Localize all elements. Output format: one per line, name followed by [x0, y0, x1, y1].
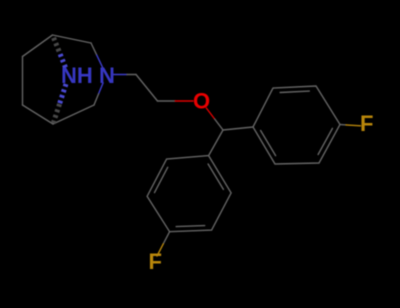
benzene ring1 outline — [253, 86, 340, 164]
wire C6-C7 — [22, 57, 24, 106]
ring1 double bond top — [280, 91, 309, 92]
wire O-C11 — [206, 108, 214, 119]
wire C1-C2 — [53, 35, 92, 43]
wire ring2-F2 — [163, 232, 169, 244]
wire C11-ring1 — [223, 127, 253, 130]
ring2 double bond upper-left — [155, 167, 168, 192]
wire C5-C6 — [23, 105, 54, 124]
benzene ring2 outline — [147, 156, 231, 232]
ring1 double bond left — [261, 131, 276, 156]
wire C9-C10 — [136, 75, 158, 102]
ring1 double bond right — [318, 128, 332, 154]
svg-text:N: N — [99, 63, 115, 88]
hash bond NH-C5 — [53, 84, 66, 124]
wire C11-ring2 — [209, 130, 223, 156]
wire C7-C1 — [23, 35, 53, 57]
svg-text:F: F — [149, 249, 162, 274]
svg-text:O: O — [193, 89, 210, 114]
wire ring1-F1 — [340, 124, 346, 126]
wire C2-N3 — [91, 43, 97, 55]
svg-text:F: F — [360, 111, 373, 136]
wire C4-C5 — [53, 105, 94, 124]
svg-text:NH: NH — [61, 63, 93, 88]
wire C10-O — [158, 100, 176, 102]
wire N3-C9 — [112, 74, 128, 76]
hash bond NH-C1 — [53, 35, 66, 68]
wire N3-C4 — [99, 83, 104, 94]
ring2 double bond bottom — [176, 226, 205, 227]
ring2 double bond upper-right — [208, 164, 223, 189]
